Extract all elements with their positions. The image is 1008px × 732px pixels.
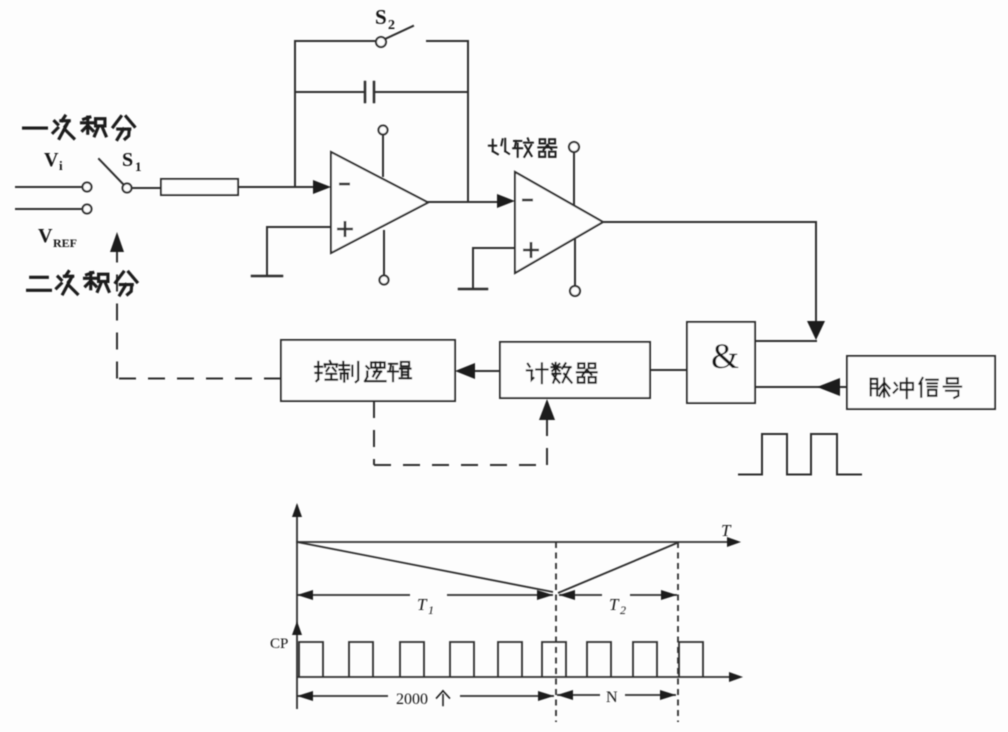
- svg-text:T: T: [609, 595, 620, 614]
- svg-text:1: 1: [428, 603, 434, 617]
- svg-text:N: N: [606, 689, 618, 706]
- svg-text:S: S: [375, 5, 387, 29]
- svg-text:T: T: [417, 595, 428, 614]
- svg-text:V: V: [38, 225, 53, 247]
- svg-text:T: T: [721, 521, 732, 540]
- svg-text:REF: REF: [53, 236, 77, 250]
- svg-text:CP: CP: [270, 636, 288, 652]
- svg-text:S: S: [122, 149, 133, 171]
- svg-text:2: 2: [620, 603, 626, 617]
- svg-text:2000: 2000: [396, 691, 428, 708]
- svg-text:i: i: [59, 158, 63, 173]
- svg-text:1: 1: [135, 159, 142, 174]
- svg-text:&: &: [711, 336, 739, 376]
- svg-text:2: 2: [388, 18, 395, 33]
- svg-text:V: V: [44, 149, 59, 171]
